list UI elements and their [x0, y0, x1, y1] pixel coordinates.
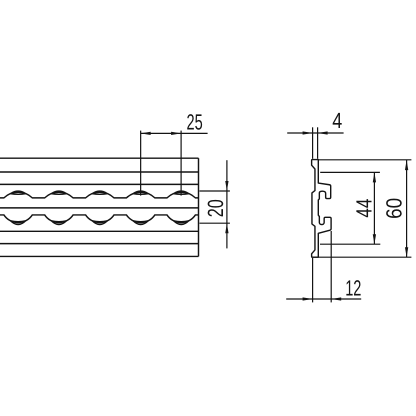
wire [180, 131, 182, 196]
node A [174, 191, 189, 194]
wire [317, 127, 319, 159]
wire [0, 255, 199, 257]
svg-text:44: 44 [352, 199, 377, 218]
wire [0, 230, 199, 232]
wire [141, 132, 208, 134]
node B [133, 221, 148, 225]
wire [198, 158, 200, 256]
wire [0, 192, 199, 198]
node arrow [303, 297, 313, 300]
wire [312, 127, 314, 159]
wire [320, 243, 380, 245]
node A [133, 191, 148, 194]
wire [373, 172, 375, 244]
node arrow [331, 297, 341, 300]
wire [320, 171, 380, 173]
node arrow [373, 172, 376, 182]
wire [0, 171, 199, 173]
node arrow [171, 132, 181, 135]
wire [0, 157, 199, 159]
wire [287, 132, 343, 134]
node arrow [405, 160, 408, 170]
node arrow [405, 247, 408, 257]
wire [200, 190, 230, 192]
wire [286, 298, 361, 300]
svg-text:25: 25 [187, 109, 203, 134]
wire [406, 160, 408, 257]
svg-text:60: 60 [381, 198, 406, 219]
node arrow [373, 234, 376, 244]
node arrow [225, 181, 228, 191]
wire [200, 222, 230, 224]
node B [11, 221, 26, 225]
wire [330, 231, 332, 302]
node B [92, 221, 107, 225]
svg-text:20: 20 [203, 199, 228, 217]
node A [51, 191, 66, 194]
node B [51, 221, 66, 225]
svg-text:12: 12 [345, 276, 361, 301]
profile cross-section [312, 160, 331, 258]
wire [318, 159, 411, 161]
wire [312, 256, 412, 258]
wire [140, 131, 142, 196]
node A [92, 191, 107, 194]
wire [0, 243, 199, 245]
wire [0, 183, 199, 185]
wire [226, 160, 228, 248]
node arrow [318, 131, 328, 134]
wire [0, 207, 199, 209]
svg-text:4: 4 [332, 108, 342, 133]
node A [11, 191, 26, 194]
node arrow [141, 132, 151, 135]
node arrow [303, 131, 313, 134]
node arrow [225, 223, 228, 233]
node B [174, 221, 189, 225]
wire [312, 258, 314, 302]
wire [0, 215, 199, 223]
